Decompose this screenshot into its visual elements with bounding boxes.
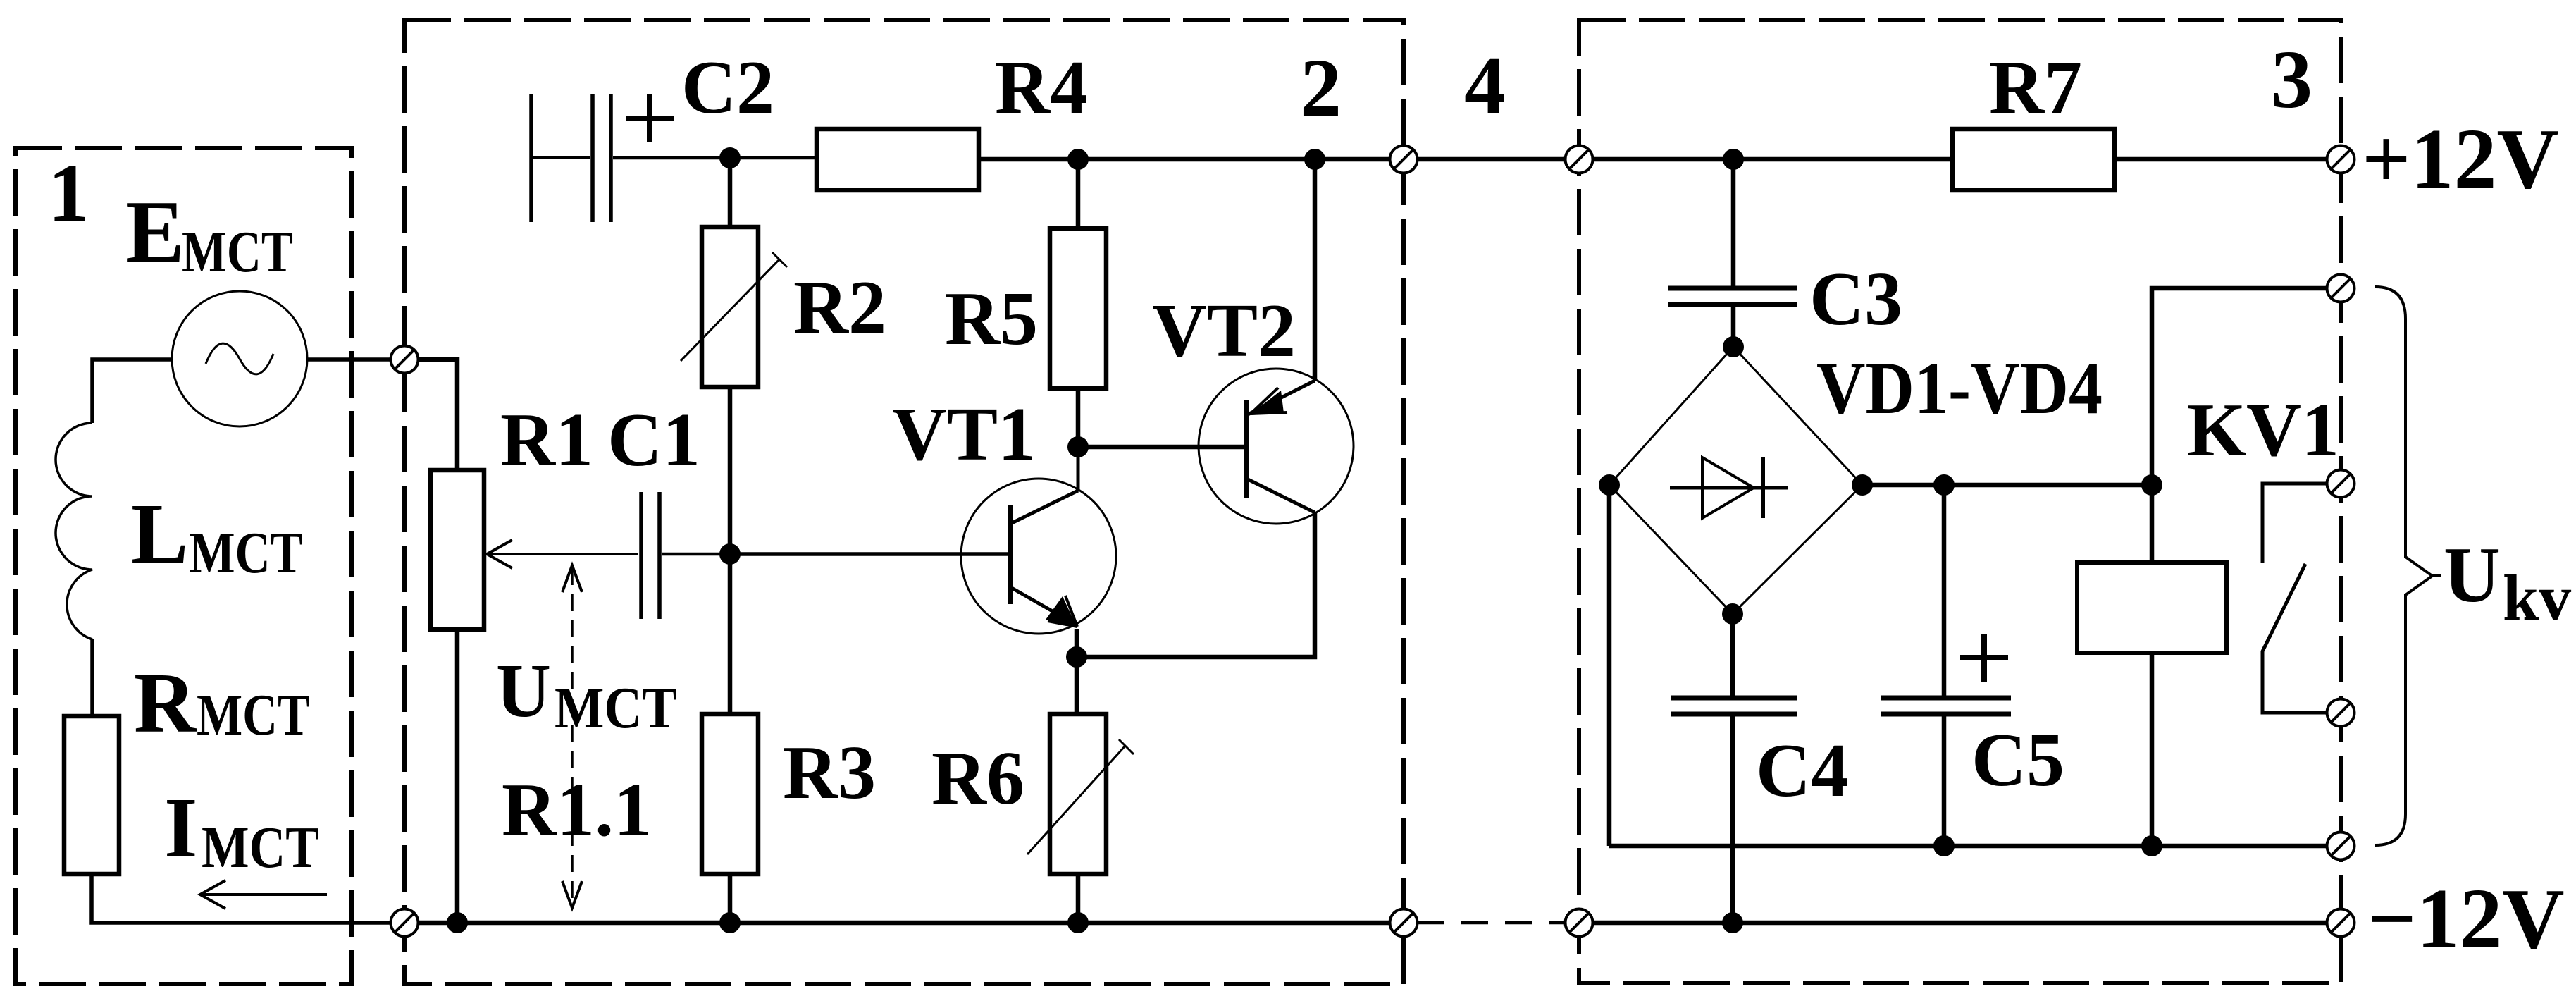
wire terminal to R1 top xyxy=(419,359,457,470)
wire C3 to bridge top xyxy=(1731,307,1736,347)
KV1 contact moving lead xyxy=(2262,651,2327,713)
C2 polarity plus xyxy=(626,94,674,142)
diode symbol inside bridge xyxy=(1670,457,1788,518)
wire node to R5 xyxy=(1076,159,1081,228)
node (KV1 top) xyxy=(2141,474,2162,496)
current arrow I_MCT xyxy=(200,893,327,896)
wire bridge right to KV1 node xyxy=(1862,483,2152,488)
node (C4 / -12V rail) xyxy=(1722,912,1743,933)
wire block3 top rail xyxy=(1594,157,1952,162)
diode bridge VD1-VD4 (diamond) xyxy=(1609,347,1862,614)
node (C5 bottom) xyxy=(1933,835,1955,856)
resistor R4 xyxy=(817,129,979,190)
svg-text:R2: R2 xyxy=(793,266,886,350)
sine symbol inside source xyxy=(206,343,273,374)
resistor R_MCT xyxy=(64,716,119,874)
bridge node bottom xyxy=(1722,603,1743,625)
svg-text:C2: C2 xyxy=(681,46,774,130)
node (KV1 bottom) xyxy=(2141,835,2162,856)
terminal (block2 left, signal in) xyxy=(391,346,419,374)
wire C5 top xyxy=(1942,485,1947,696)
wire node to VT2 collector xyxy=(1077,512,1315,657)
svg-text:4: 4 xyxy=(1464,39,1506,131)
svg-text:2: 2 xyxy=(1300,42,1342,134)
resistor R3 xyxy=(702,714,758,874)
svg-text:R: R xyxy=(134,656,197,751)
terminal (block2 right, bottom rail out) xyxy=(1390,909,1418,937)
svg-text:U: U xyxy=(2444,531,2501,619)
svg-text:МСТ: МСТ xyxy=(182,219,293,285)
block 2 boundary (dashed box) xyxy=(404,20,1404,984)
svg-text:1: 1 xyxy=(48,147,89,239)
node (R5 / VT1 collector / VT2 base) xyxy=(1067,436,1089,457)
wire VT1 emitter to node xyxy=(1075,629,1079,657)
-12V rail of block 3 xyxy=(1594,921,2327,926)
terminal U_kv top xyxy=(2327,275,2355,302)
svg-text:МСТ: МСТ xyxy=(197,682,310,748)
capacitor C2 (electrolytic, three bars) xyxy=(529,94,533,222)
U_MCT measurement arrow (dashed, double head) xyxy=(571,568,574,905)
node 2 (VT2 tap) xyxy=(1304,149,1325,170)
capacitor C5 (electrolytic) xyxy=(1881,696,2011,701)
transistor VT2 xyxy=(1199,369,1354,524)
wire between C2 bars xyxy=(531,156,590,159)
bottom rail of block 2 xyxy=(419,921,1389,926)
terminal +12V xyxy=(2327,146,2355,173)
svg-text:KV1: KV1 xyxy=(2187,388,2339,472)
svg-text:R6: R6 xyxy=(931,737,1024,820)
wire R6 bottom to rail xyxy=(1076,874,1081,923)
bridge node right xyxy=(1852,474,1873,496)
terminal -12V xyxy=(2327,909,2355,937)
capacitor C3 xyxy=(1668,286,1797,291)
transistor VT1 xyxy=(961,447,1116,634)
terminal switch bottom xyxy=(2327,699,2355,727)
wire source left to inductor top xyxy=(92,359,172,423)
svg-text:−12V: −12V xyxy=(2367,871,2565,966)
wire node to KV1 coil top xyxy=(2150,485,2155,563)
node (C1 / R2-R3 / VT1 base) xyxy=(719,543,741,565)
svg-text:U: U xyxy=(496,649,551,733)
rheostat R2 xyxy=(702,227,758,387)
junction R6/rail xyxy=(1067,912,1089,933)
potentiometer R1 xyxy=(431,470,484,629)
KV1 contact fixed lead xyxy=(2262,484,2327,563)
svg-text:R5: R5 xyxy=(945,277,1038,361)
node (VT1 emitter / VT2 collector / R6) xyxy=(1066,646,1087,668)
svg-text:R1.1: R1.1 xyxy=(502,768,652,852)
wire inductor bottom to R_MCT xyxy=(90,639,94,716)
svg-text:R4: R4 xyxy=(995,46,1088,130)
wire node to VT2 base xyxy=(1078,445,1246,450)
wire node down to C3 xyxy=(1731,159,1736,286)
inductor L_MCT (3 arcs) xyxy=(56,423,92,639)
svg-text:R1: R1 xyxy=(500,398,593,482)
svg-text:3: 3 xyxy=(2271,33,2312,125)
R1 wiper arrow xyxy=(487,553,638,555)
AC source E_MCT circle xyxy=(172,291,307,426)
C5 polarity plus xyxy=(1960,634,2008,682)
wire KV1 coil bottom to node line xyxy=(2150,653,2155,846)
wire C2 to R4 xyxy=(613,156,817,160)
wire R_MCT bottom to terminal xyxy=(92,874,390,923)
block 1 boundary (dashed box) xyxy=(16,148,352,984)
terminal node line right xyxy=(2327,832,2355,860)
wire C1 right to base node xyxy=(662,553,730,556)
svg-text:C3: C3 xyxy=(1809,257,1902,341)
resistor R7 xyxy=(1952,129,2114,190)
wire 4 (between blocks, top) xyxy=(1418,157,1565,162)
wire U_kv top terminal to KV1 coil xyxy=(2152,288,2327,485)
svg-text:МСТ: МСТ xyxy=(189,520,303,586)
node (C3 tap) xyxy=(1723,149,1744,170)
svg-text:C1: C1 xyxy=(607,398,700,482)
terminal switch top xyxy=(2327,470,2355,498)
node (C5 top) xyxy=(1933,474,1955,496)
svg-text:+12V: +12V xyxy=(2362,111,2559,207)
rectified minus node line xyxy=(1609,844,2327,849)
wire R4 right along top rail xyxy=(979,157,1389,162)
wire C5 bottom xyxy=(1942,716,1947,846)
wire node to VT1 base xyxy=(730,552,1010,556)
svg-text:МСТ: МСТ xyxy=(555,675,677,741)
wire R1 bottom to rail xyxy=(455,629,460,923)
svg-text:VT1: VT1 xyxy=(892,393,1036,477)
terminal (block2 left, bottom rail) xyxy=(391,909,419,937)
wire R3 bottom to rail xyxy=(728,874,733,923)
svg-text:VT2: VT2 xyxy=(1152,289,1296,373)
KV1 contact blade xyxy=(2262,564,2305,651)
resistor R5 xyxy=(1050,228,1106,388)
wire node down to R6 xyxy=(1075,657,1079,714)
wire R7 to +12V terminal xyxy=(2114,157,2327,162)
capacitor C1 plates xyxy=(639,492,643,619)
svg-text:МСТ: МСТ xyxy=(202,815,319,880)
svg-text:R7: R7 xyxy=(1989,46,2082,130)
wire R2 bottom to R3 top xyxy=(728,387,733,714)
svg-text:C5: C5 xyxy=(1971,718,2064,802)
junction R1/rail xyxy=(447,912,468,933)
svg-text:kv: kv xyxy=(2503,562,2571,634)
bridge node left xyxy=(1599,474,1620,496)
capacitor C4 xyxy=(1671,696,1797,701)
block 3 boundary (dashed box) xyxy=(1579,20,2341,983)
terminal (block2 right, top rail out) xyxy=(1390,146,1418,173)
wire source right to terminal xyxy=(307,357,390,362)
wire bridge left down to node line xyxy=(1607,485,1612,846)
junction R3/rail xyxy=(719,912,741,933)
rheostat R6 xyxy=(1050,714,1106,874)
svg-text:E: E xyxy=(125,183,185,281)
wire bridge bottom to C4 xyxy=(1730,614,1735,698)
wire R5 bottom to node xyxy=(1076,388,1081,447)
relay coil KV1 xyxy=(2077,563,2227,653)
svg-text:VD1-VD4: VD1-VD4 xyxy=(1816,347,2103,429)
svg-text:I: I xyxy=(164,780,197,875)
svg-text:C4: C4 xyxy=(1756,729,1849,813)
U_kv brace xyxy=(2375,287,2432,845)
dashed wire between blocks, bottom xyxy=(1418,921,1565,925)
terminal (block3 left, top) xyxy=(1566,146,1593,173)
svg-text:R3: R3 xyxy=(783,731,876,815)
wire node 2 down to VT2 emitter xyxy=(1313,159,1318,381)
wire C4 bottom to -12V rail xyxy=(1730,714,1735,923)
node (C2 / R2 top) xyxy=(719,147,741,168)
node (R5 tap) xyxy=(1067,149,1089,170)
svg-text:L: L xyxy=(131,486,188,582)
terminal (block3 left, bottom) xyxy=(1566,909,1593,937)
wire node down to R2 xyxy=(728,158,733,227)
bridge node top xyxy=(1723,336,1744,357)
